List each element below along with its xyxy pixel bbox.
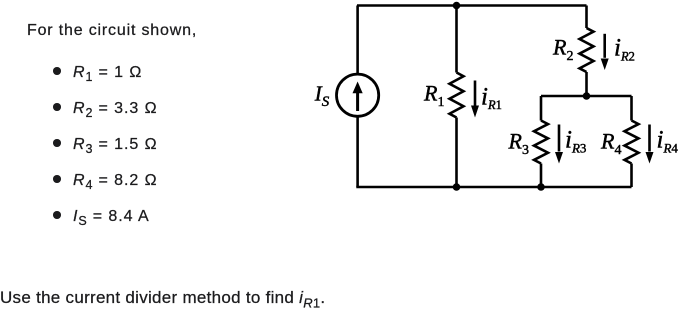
svg-text:iR4: iR4 (657, 127, 679, 156)
wire mid rail (541, 95, 632, 98)
wire R2 branch upper (585, 6, 588, 29)
bullet dot 4 (53, 175, 61, 183)
svg-text:R2: R2 (552, 35, 573, 65)
bottom question text (0, 289, 325, 311)
resistor R2 (580, 28, 594, 72)
current source arrow (353, 82, 363, 112)
wire R3 branch upper (540, 96, 543, 121)
current arrow iR3 (555, 125, 563, 164)
resistor R4 (625, 121, 639, 164)
wire top rail (357, 4, 587, 7)
resistor R1 (450, 73, 464, 118)
bullet dot 1 (53, 67, 61, 75)
wire left rail upper (356, 6, 359, 74)
bullet item R3 = 1.5 ohm (73, 137, 158, 157)
bullet item R1 = 1 ohm (73, 65, 142, 85)
heading text (27, 23, 197, 39)
bullet dot 5 (53, 211, 61, 219)
node dot R2 to mid rail (583, 92, 591, 100)
svg-text:iR3: iR3 (565, 127, 586, 156)
bullet dot 3 (53, 139, 61, 147)
node dot bottom of R3 (537, 183, 545, 191)
bullet item R2 = 3.3 ohm (73, 101, 158, 121)
node dot top of R1 (453, 2, 461, 10)
bullet item R4 = 8.2 ohm (73, 173, 158, 193)
current arrow iR2 (601, 34, 609, 70)
wire R1 branch lower (455, 118, 458, 188)
wire R2 branch lower (585, 72, 588, 96)
node dot bottom of R1 (453, 183, 461, 191)
wire R4 branch lower (630, 164, 633, 188)
svg-text:R4: R4 (600, 128, 621, 158)
current arrow iR1 (471, 81, 479, 118)
bullet dot 2 (53, 103, 61, 111)
svg-text:R1: R1 (423, 81, 444, 111)
wire R4 branch upper (630, 96, 633, 121)
resistor R3 (534, 121, 548, 164)
bullet item IS = 8.4 A (73, 209, 150, 229)
wire R3 branch lower (540, 164, 543, 188)
wire left rail lower (356, 117, 359, 187)
wire bottom rail (356, 186, 631, 189)
svg-text:IS: IS (314, 81, 330, 110)
svg-text:iR1: iR1 (481, 84, 502, 113)
svg-text:R3: R3 (508, 128, 529, 158)
wire R1 branch upper (455, 6, 458, 73)
svg-text:iR2: iR2 (614, 35, 635, 64)
current arrow iR4 (646, 125, 654, 164)
current source IS circle (337, 74, 379, 116)
